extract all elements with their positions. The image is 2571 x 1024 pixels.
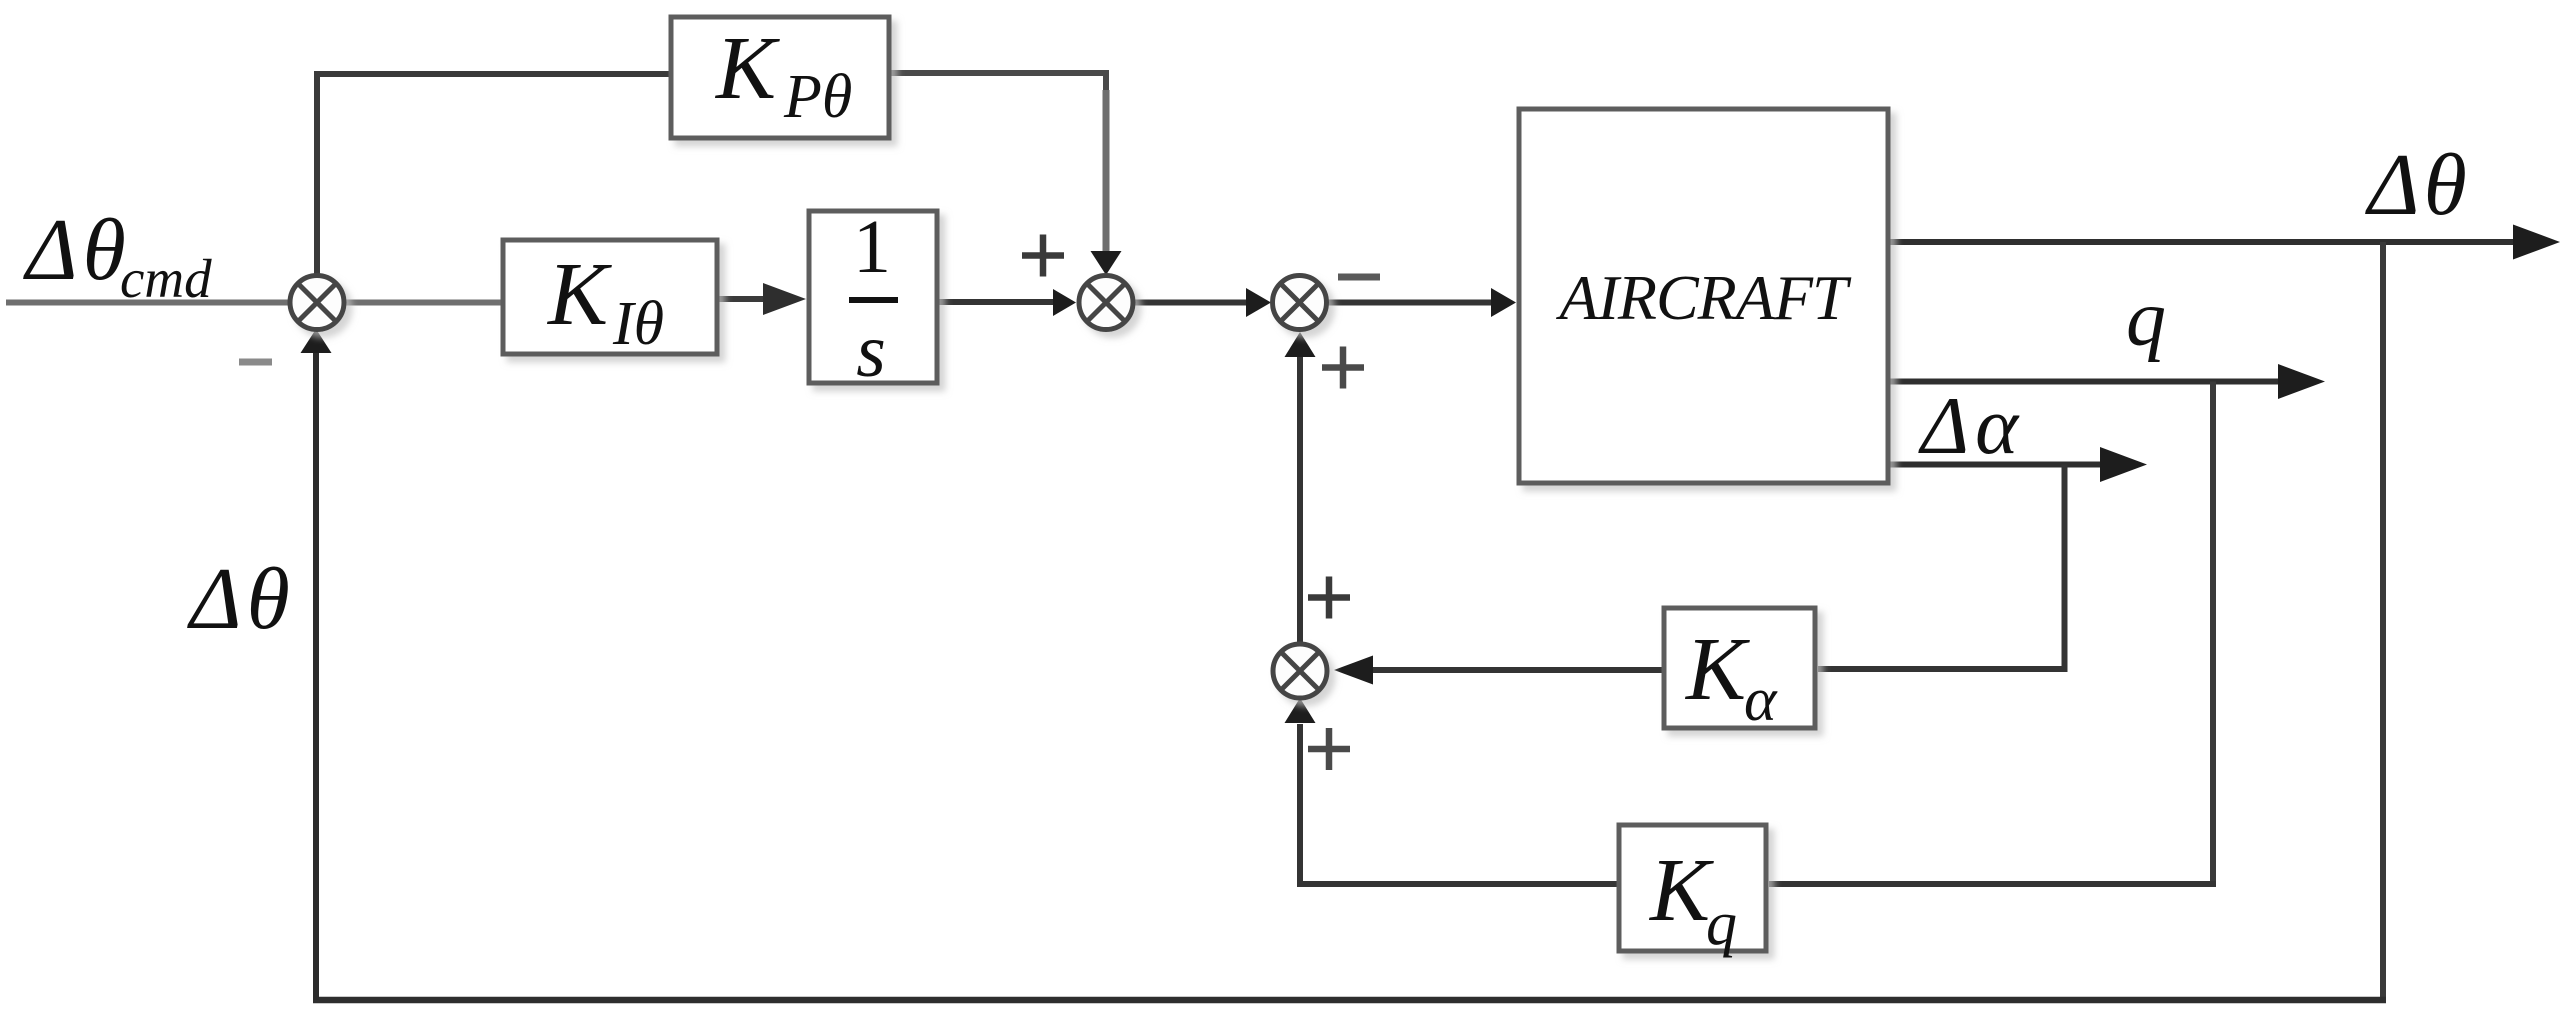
arrowhead into AIRCRAFT [1491, 288, 1516, 317]
arrowhead left into sum S4 [1334, 656, 1373, 685]
svg-text:cmd: cmd [120, 248, 212, 309]
arrowhead up into sum S3 [1285, 332, 1316, 357]
wire AIRCRAFT output Dalpha [1890, 462, 2104, 468]
svg-text:Pθ: Pθ [783, 63, 852, 131]
block Kq [1619, 825, 1766, 951]
svg-text:K: K [714, 19, 780, 118]
svg-text:AIRCRAFT: AIRCRAFT [1555, 262, 1851, 333]
svg-text:Δθ: Δθ [187, 551, 295, 648]
plus sign at sum S2 [1022, 235, 1064, 277]
svg-text:K: K [546, 245, 612, 344]
plus sign above sum S4 [1308, 577, 1350, 619]
wire sum S1 to block KItheta [345, 300, 502, 306]
arrowhead output q [2278, 364, 2325, 399]
wire vertical gray segment into sum S2 [1103, 90, 1110, 252]
minus sign at sum S3 [1338, 274, 1380, 281]
svg-text:s: s [856, 309, 886, 393]
wire sum S1 up and right to KPtheta [317, 74, 669, 276]
wire input Dtheta_cmd to sum S1 [6, 300, 290, 306]
arrowhead output Dtheta [2513, 225, 2560, 260]
block AIRCRAFT [1519, 109, 1888, 483]
cross of S1 [299, 284, 336, 321]
summing junction S1 [290, 276, 344, 330]
wire Dalpha branch down and left to Kalpha [1818, 465, 2065, 670]
wire KItheta to 1/s block [719, 296, 770, 302]
svg-text:K: K [1648, 841, 1714, 940]
cross of S2 [1088, 284, 1125, 321]
wire sum S3 to AIRCRAFT block [1328, 300, 1493, 306]
wire q branch down to Kq line [2210, 382, 2216, 885]
summing junction S3 [1273, 276, 1327, 330]
block 1/s integrator [809, 211, 937, 383]
wire sum S4 up to sum S3 [1297, 356, 1303, 644]
svg-text:q: q [2126, 275, 2166, 363]
wire Kalpha output to sum S4 [1371, 667, 1663, 673]
arrowhead up into sum S1 [301, 329, 332, 353]
svg-text:Δα: Δα [1918, 380, 2024, 471]
wire Kq output from branch to Kq block [1769, 881, 2216, 887]
svg-text:q: q [1706, 890, 1737, 958]
wire bottom feedback horizontal [313, 997, 2386, 1004]
wire feedback vertical up to sum S1 [313, 352, 319, 1000]
wire Dtheta branch down to bottom feedback [2380, 242, 2386, 1000]
svg-text:α: α [1744, 666, 1778, 734]
wire 1/s to sum S2 [939, 299, 1056, 305]
block KItheta [503, 240, 717, 354]
wire sum S2 to sum S3 [1134, 300, 1248, 306]
cross of S3 [1281, 284, 1318, 321]
arrowhead into sum S2 [1053, 289, 1076, 316]
block KPtheta [671, 17, 889, 138]
wire Kq block to sum S4 [1300, 724, 1618, 884]
svg-text:K: K [1684, 620, 1750, 719]
wire KPtheta right then down to sum S2 [889, 73, 1106, 95]
minus sign at sum S1 [239, 359, 272, 366]
svg-text:Δθ: Δθ [23, 202, 131, 299]
arrowhead down into sum S2 [1091, 251, 1122, 275]
plus sign below sum S4 [1308, 728, 1350, 770]
block Kalpha [1664, 608, 1815, 728]
arrowhead into 1/s block [763, 283, 806, 315]
svg-text:Iθ: Iθ [612, 290, 664, 358]
svg-text:Δθ: Δθ [2365, 137, 2471, 234]
wire AIRCRAFT output Dtheta [1890, 239, 2518, 245]
wire AIRCRAFT output q [1890, 379, 2282, 385]
arrowhead into sum S3 [1246, 288, 1271, 317]
cross of S4 [1282, 653, 1319, 690]
plus sign below right of sum S3 [1322, 347, 1364, 389]
summing junction S2 [1079, 276, 1133, 330]
arrowhead output Dalpha [2100, 447, 2147, 482]
summing junction S4 [1273, 644, 1327, 698]
arrowhead up into sum S4 [1285, 698, 1316, 723]
svg-text:1: 1 [853, 205, 891, 289]
